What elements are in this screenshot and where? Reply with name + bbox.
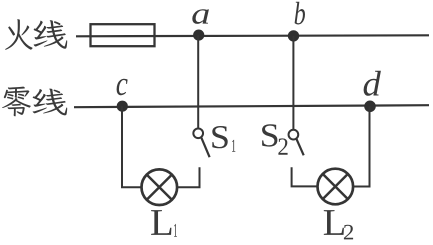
lamp L2: circle with X: [318, 169, 354, 205]
label d: [364, 71, 381, 96]
node d: [364, 101, 376, 113]
label S2: [262, 124, 288, 155]
label a: [192, 9, 209, 24]
lamp L1: circle with X: [142, 169, 178, 205]
fuse on live wire: [91, 24, 155, 46]
label c: [117, 79, 128, 96]
wire: lamp L2 right up to node d: [353, 106, 369, 186]
node b: [288, 30, 299, 41]
label: 零线 (neutral wire): [2, 87, 67, 117]
wire: lamp L1 right up to S1 lower terminal: [177, 167, 199, 187]
node a: [193, 29, 204, 40]
label b: [295, 2, 305, 25]
wire: node a down to switch S1: [197, 35, 199, 128]
label S1: [212, 126, 235, 152]
node c: [117, 101, 128, 112]
switch S2 blade open: [296, 139, 303, 156]
switch S1 pivot circle: [193, 128, 203, 138]
wire: node c down and right to lamp L1: [122, 106, 142, 187]
wire: node b down to switch S2: [292, 36, 294, 130]
label: 火线 (live wire): [5, 19, 67, 49]
wire: live wire top horizontal: [76, 35, 429, 36]
wire: neutral lower horizontal: [74, 105, 429, 107]
label L1: [151, 210, 177, 237]
label L2: [324, 210, 353, 239]
switch S1 blade open: [201, 138, 209, 158]
wire: S2 lower terminal down and right to lamp L2: [292, 167, 318, 186]
switch S2 pivot circle: [289, 130, 299, 140]
